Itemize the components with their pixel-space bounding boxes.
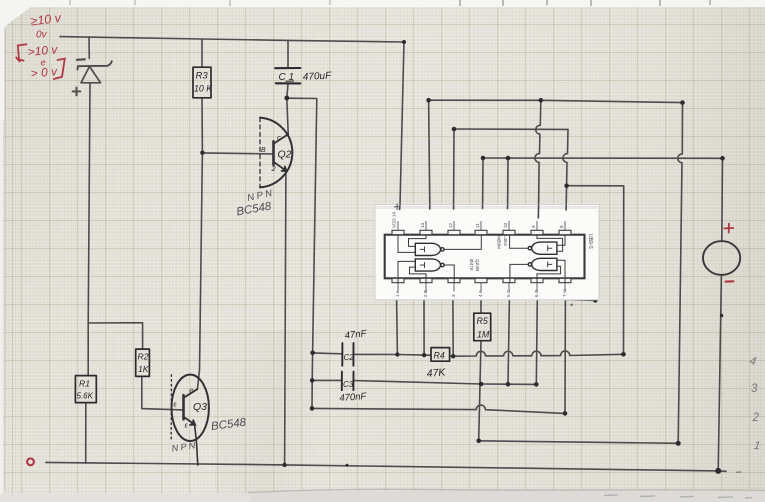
- node C2 left junction: [310, 350, 315, 355]
- wire IC pin9 top with hops: [535, 100, 541, 205]
- node pin8 link junction: [564, 183, 569, 188]
- svg-text:470uF: 470uF: [303, 70, 333, 83]
- zener minus plus already drawn; red ink annotations: [27, 11, 62, 81]
- node pin3 on row B: [451, 354, 455, 358]
- node ground rail right corner: [715, 468, 721, 474]
- node pin9 top junction: [539, 98, 544, 103]
- wire C2 left lead: [313, 352, 342, 355]
- svg-text:3: 3: [451, 294, 456, 297]
- wire R2 bottom to Q3 base: [142, 377, 184, 410]
- svg-text:BC548: BC548: [210, 417, 247, 433]
- resistor R2 box: [136, 349, 150, 376]
- pin 5 stub: [503, 278, 515, 282]
- gate U1a routing: [398, 261, 415, 282]
- pin 1 stub: [392, 278, 404, 282]
- svg-text:Q3: Q3: [193, 401, 207, 413]
- pin 14 stub: [392, 230, 404, 234]
- svg-text:6 O: 6 O: [534, 289, 539, 297]
- left paper edge shadow: [4, 30, 7, 490]
- svg-text:1 A: 1 A: [395, 289, 400, 297]
- node pin12 top corner: [452, 127, 457, 132]
- wire pin9 feed overlay: [537, 205, 539, 218]
- wire IC pin7 down: [564, 300, 566, 414]
- wire rail corner down to IC pin14: [400, 42, 404, 205]
- pencil plus mark at pin14 feed: [394, 204, 401, 211]
- node Q2 emitter on ground rail: [282, 463, 286, 467]
- svg-text:BC548: BC548: [236, 200, 273, 218]
- wire pin8 column with hop: [563, 129, 568, 205]
- transistor Q3: [171, 375, 209, 466]
- svg-text:B: B: [261, 147, 266, 154]
- red terminal O: [27, 458, 34, 465]
- red bracket left: [16, 44, 26, 61]
- wire row D : node to pin7 with hop: [312, 405, 565, 413]
- red meter minus: [726, 280, 734, 283]
- node row E right corner: [676, 441, 681, 446]
- wire top supply rail: [60, 37, 404, 42]
- node meter top corner: [720, 156, 725, 161]
- svg-text:R4: R4: [434, 351, 445, 361]
- svg-text:13: 13: [420, 222, 425, 228]
- transistor Q2: [260, 118, 292, 188]
- wire R3 bottom to node B2: [201, 98, 203, 153]
- wire y186 link to right column: [567, 186, 624, 355]
- svg-text:4 K: 4 K: [478, 289, 483, 297]
- wire pin11 feed overlay: [482, 205, 484, 209]
- node right column top junction: [680, 100, 685, 105]
- wire node B2 down to Q3 collector: [197, 153, 202, 390]
- svg-text:C2: C2: [344, 353, 355, 362]
- node row B right corner: [621, 352, 626, 357]
- svg-text:3: 3: [751, 383, 758, 395]
- gate U1b routing: [537, 266, 561, 283]
- svg-text:7 ¼: 7 ¼: [562, 289, 567, 297]
- wire IC pin11 top: [482, 158, 484, 205]
- gate U1b symbol: [532, 258, 557, 270]
- svg-text:1M: 1M: [477, 330, 490, 340]
- svg-text:e: e: [189, 388, 193, 395]
- wire IC pin3 down: [452, 300, 454, 357]
- pin lead ticks top: [398, 221, 565, 230]
- top-left white corner wedge: [0, 0, 40, 30]
- wire IC pin1 down: [396, 300, 399, 355]
- gate glyphs: [420, 247, 425, 253]
- svg-text:8: 8: [559, 225, 564, 228]
- pin 13 stub: [420, 230, 432, 234]
- node row D left junction: [310, 406, 315, 411]
- svg-text:1: 1: [753, 440, 761, 453]
- gate U1a symbol: [415, 259, 440, 271]
- svg-text:10: 10: [503, 222, 508, 228]
- node pin7 on row D: [563, 411, 568, 416]
- node pin13 top corner: [426, 98, 431, 103]
- node rail corner at IC feed: [402, 40, 406, 44]
- stray pencil speck near pin7: [570, 304, 573, 307]
- resistor R3 box: [193, 67, 211, 98]
- capacitor C2 plates: [342, 343, 353, 366]
- svg-text:>10 v: >10 v: [27, 42, 59, 59]
- node C3 left junction: [310, 378, 315, 383]
- wire IC pin10 top: [507, 158, 509, 205]
- node pin6 on row C: [534, 382, 539, 387]
- pin 4 stub: [475, 278, 487, 282]
- top scanner band: [0, 0, 765, 7]
- svg-text:C3: C3: [343, 380, 354, 389]
- wire top row y158: [483, 157, 723, 159]
- svg-text:12: 12: [448, 222, 453, 228]
- svg-text:UB9-S: UB9-S: [587, 234, 593, 249]
- svg-text:R3: R3: [196, 71, 209, 82]
- svg-text:R2: R2: [138, 352, 149, 362]
- wire Q2 emitter down to ground rail: [285, 171, 286, 465]
- svg-text:0v: 0v: [36, 30, 48, 41]
- wire row C : C3 right to pins 4-5-6: [354, 381, 537, 385]
- svg-text:9: 9: [531, 225, 536, 228]
- wire IC pin13 top: [429, 100, 430, 205]
- node R3-Q2 base junction: [200, 151, 204, 155]
- pin 3 stub: [448, 278, 460, 282]
- node pin4 on row C: [479, 382, 484, 387]
- gate U1d routing: [409, 235, 427, 247]
- node pin10 top junction: [506, 156, 511, 161]
- wire R2 top branch from left column: [88, 323, 142, 349]
- wire IC pin4 to R5: [480, 300, 482, 314]
- gate U1c routing: [537, 235, 563, 252]
- svg-text:N P N: N P N: [171, 440, 196, 453]
- pin 9 stub: [531, 230, 543, 234]
- wire C1 top lead: [287, 40, 289, 67]
- wire C1 bottom to node C: [287, 84, 288, 98]
- wire IC pin12 top: [453, 129, 455, 205]
- paper bottom edge line: [248, 489, 765, 492]
- svg-text:MØ9M: MØ9M: [497, 235, 502, 249]
- wire IC pin5 down: [508, 300, 509, 385]
- node pin11 top corner: [481, 156, 486, 161]
- svg-text:1K: 1K: [138, 364, 150, 374]
- wire row E: [479, 441, 679, 444]
- svg-text:4: 4: [748, 355, 757, 368]
- resistor R4 box: [431, 348, 450, 362]
- wire Q2 base lead: [202, 153, 273, 154]
- svg-text:R5: R5: [477, 316, 488, 326]
- node R5 on row E: [476, 439, 481, 444]
- wire meter top lead: [721, 158, 724, 241]
- zener diode D1: [78, 61, 112, 69]
- red meter plus: [724, 224, 733, 233]
- wire C3 left lead: [312, 379, 341, 381]
- svg-text:11: 11: [475, 223, 480, 228]
- scanner edge ticks top: [70, 0, 710, 6]
- pin 8 stub: [559, 230, 571, 234]
- gate U1d symbol: [415, 243, 440, 255]
- wire pin12 feed overlay: [453, 205, 455, 209]
- capacitor C1 plates: [275, 67, 300, 69]
- svg-text:ɛ: ɛ: [174, 402, 178, 409]
- node C1-Q2 collector junction: [284, 96, 289, 101]
- wire pin13 feed overlay: [429, 205, 431, 209]
- wire row B : C2 right through R4 with hops: [354, 353, 432, 356]
- wire Q2 collector up: [287, 98, 288, 134]
- resistor R1 box: [75, 376, 96, 403]
- wire pin10 feed overlay: [507, 205, 509, 209]
- wire C2-C3 left link: [311, 353, 314, 409]
- node pin1 on row B: [395, 352, 399, 356]
- node pin5 on row C: [506, 382, 511, 387]
- wire pin7 right stub: [565, 299, 595, 300]
- pin 11 stub: [475, 230, 487, 234]
- svg-text:5.6K: 5.6K: [77, 392, 94, 401]
- svg-text:L4E3: L4E3: [503, 235, 508, 246]
- svg-text:≥10 v: ≥10 v: [30, 11, 63, 29]
- pin 6 stub: [531, 278, 543, 282]
- red bracket right: [54, 59, 65, 79]
- IC U1 datasheet clipping: [375, 205, 599, 300]
- pin lead ticks bottom: [398, 283, 565, 292]
- svg-text:Q2: Q2: [278, 149, 292, 161]
- svg-text:10 K: 10 K: [194, 84, 213, 94]
- svg-text:2: 2: [271, 164, 277, 173]
- wire right tall column with hop: [678, 103, 683, 444]
- svg-text:2 B: 2 B: [423, 290, 428, 297]
- svg-text:47K: 47K: [426, 366, 447, 380]
- svg-text:R1: R1: [79, 379, 90, 389]
- svg-text:VDD 14: VDD 14: [392, 211, 397, 228]
- wire R3 top lead: [201, 39, 203, 67]
- pin 12 stub: [448, 230, 460, 234]
- gate U1c symbol: [532, 242, 557, 254]
- svg-text:QZ4N: QZ4N: [475, 259, 480, 271]
- wire node C right branch: [287, 98, 317, 353]
- wire zener bottom down left column: [88, 83, 90, 376]
- op DIP body outline: [385, 235, 585, 279]
- bottom paper edge: [0, 494, 765, 502]
- pin 10 stub: [503, 230, 515, 234]
- svg-text:5 C: 5 C: [506, 289, 511, 297]
- pin 2 stub: [420, 278, 432, 282]
- wire pin8 feed overlay: [565, 205, 567, 210]
- node on meter bottom wire: [720, 314, 723, 317]
- wire top row y129: [454, 128, 568, 130]
- wire R1 bottom to ground rail: [85, 403, 87, 464]
- svg-text:ε: ε: [185, 421, 189, 430]
- resistor R5 box: [474, 313, 491, 341]
- pin 7 stub: [559, 278, 571, 282]
- node small mark on ground rail: [346, 464, 349, 467]
- svg-text:2: 2: [752, 412, 760, 424]
- wire ground rail: [46, 462, 726, 471]
- wire pin14 feed overlay: [399, 205, 401, 210]
- node pin2 on row B: [422, 353, 426, 357]
- pencil smudges bottom margin: [604, 472, 752, 498]
- wire top row y100: [429, 100, 683, 102]
- svg-text:470nF: 470nF: [339, 391, 368, 404]
- wire zener top lead: [88, 37, 90, 59]
- wire IC pin6 down: [536, 300, 537, 385]
- wire meter bottom to ground rail: [718, 275, 721, 471]
- wire IC pin2 down: [423, 300, 425, 356]
- node pin7 stub end: [593, 298, 597, 302]
- svg-text:47nF: 47nF: [344, 328, 368, 341]
- wire R5 bottom to row E: [479, 341, 481, 441]
- capacitor C3 plates: [342, 372, 354, 391]
- svg-text:c: c: [277, 133, 281, 142]
- svg-text:Ø47K: Ø47K: [469, 259, 474, 272]
- meter M1: [703, 241, 740, 275]
